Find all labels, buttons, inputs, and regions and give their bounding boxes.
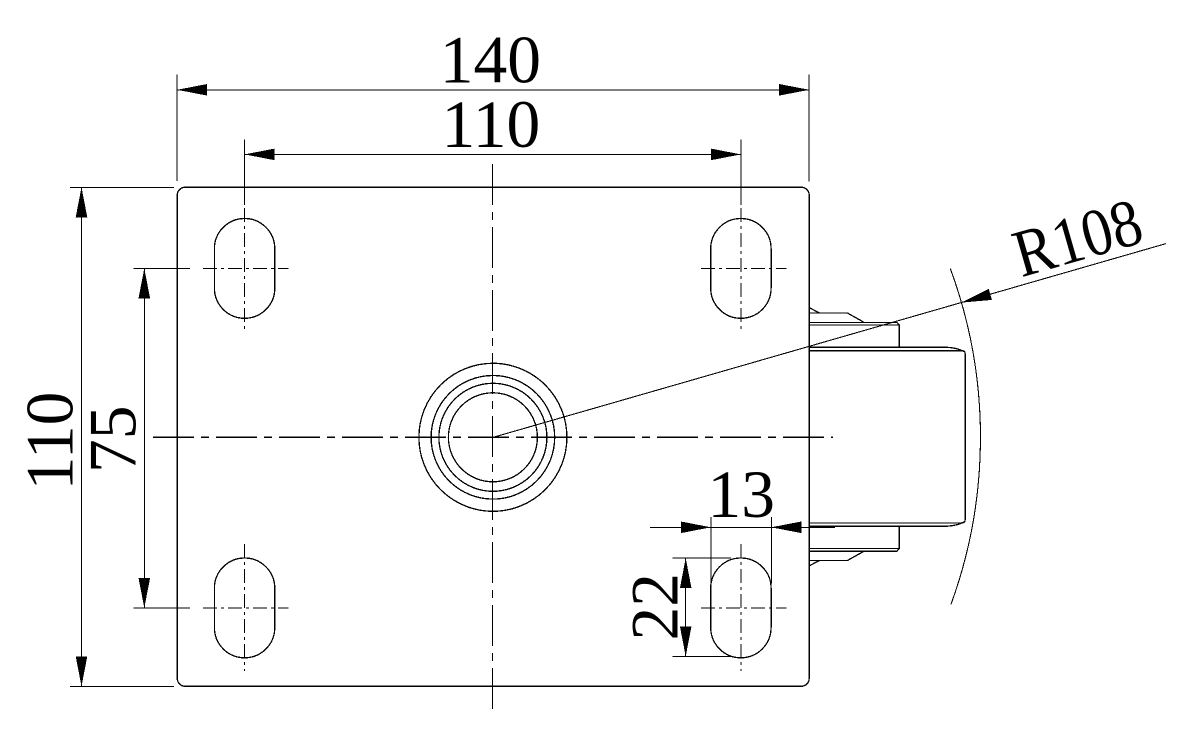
swivel top cap line bbox=[809, 313, 863, 322]
leader R108 bbox=[493, 244, 1166, 438]
svg-text:13: 13 bbox=[707, 457, 775, 532]
dim 22 bottom extension bbox=[672, 655, 731, 657]
dim 13 right extension bbox=[770, 517, 772, 584]
dim 140 right extension bbox=[808, 75, 810, 182]
wheel outline right bbox=[809, 351, 965, 523]
svg-text:110: 110 bbox=[442, 87, 541, 162]
swivel top seam upper bbox=[809, 322, 899, 325]
svg-text:22: 22 bbox=[617, 573, 692, 641]
swivel bottom cap line bbox=[809, 552, 863, 561]
arrow 110 top right bbox=[711, 149, 741, 161]
swivel top chamfer bbox=[809, 308, 819, 313]
slot TR vertical centerline bbox=[740, 208, 742, 332]
dim 110 left bottom extension bbox=[70, 685, 174, 687]
center bore circle 4 bbox=[448, 393, 537, 482]
swivel top block bbox=[809, 325, 899, 347]
arrow 140 left bbox=[177, 84, 207, 96]
slot BL horizontal centerline bbox=[199, 607, 289, 609]
dim 75 bottom extension bbox=[134, 607, 191, 609]
slot BL vertical centerline bbox=[244, 544, 246, 671]
arrow 110 left up bbox=[76, 187, 88, 217]
main vertical centerline bbox=[492, 164, 494, 709]
dimension texts bbox=[13, 22, 1151, 640]
arrow 22 down bbox=[680, 626, 692, 656]
slot hole bottom-right bbox=[711, 558, 771, 658]
swivel bottom block bbox=[809, 526, 899, 548]
main horizontal centerline bbox=[153, 436, 833, 438]
dim 110 top left extension bbox=[244, 140, 246, 205]
arrow 13 right outside bbox=[771, 522, 801, 534]
dimensions bbox=[70, 75, 1166, 687]
center bore circle 2 bbox=[431, 376, 555, 500]
slot hole top-right bbox=[711, 219, 771, 319]
svg-text:75: 75 bbox=[75, 406, 150, 474]
arrow 75 down bbox=[139, 578, 151, 608]
slot BR horizontal centerline bbox=[697, 607, 787, 609]
dim 13 left extension bbox=[710, 517, 712, 584]
dim 110 top right extension bbox=[740, 140, 742, 205]
arrow 110 top left bbox=[245, 149, 275, 161]
dim 13 line bbox=[650, 526, 835, 528]
slot TL vertical centerline bbox=[244, 208, 246, 332]
slot TL horizontal centerline bbox=[199, 267, 289, 269]
arrow R108 leader bbox=[962, 289, 992, 303]
dim 22 top extension bbox=[672, 557, 731, 559]
arrow 140 right bbox=[779, 84, 809, 96]
dim 140 line bbox=[177, 89, 809, 91]
wheel tread shoulder top bbox=[809, 347, 964, 352]
dim 75 top extension bbox=[134, 267, 191, 269]
dim 110 left line bbox=[81, 187, 83, 686]
slot BR vertical centerline bbox=[740, 544, 742, 671]
centerlines bbox=[153, 164, 833, 709]
dim 140 left extension bbox=[176, 75, 178, 182]
arrow 75 up bbox=[139, 268, 151, 298]
center bore circle 1 bbox=[419, 363, 567, 511]
slot hole bottom-left bbox=[214, 558, 274, 658]
arrow 22 up bbox=[680, 558, 692, 588]
arrowheads bbox=[76, 84, 992, 686]
dim 110 left top extension bbox=[70, 186, 174, 188]
center bore circle 3 bbox=[439, 383, 547, 491]
dim 75 line bbox=[143, 268, 145, 608]
swivel bottom chamfer bbox=[809, 561, 819, 566]
slot TR horizontal centerline bbox=[697, 267, 787, 269]
swivel bottom seam lower bbox=[809, 549, 899, 552]
dim 110 top line bbox=[245, 153, 741, 155]
arc R108 bbox=[950, 269, 980, 605]
arrow 13 left outside bbox=[681, 522, 711, 534]
plate outline bbox=[177, 187, 809, 686]
slot hole top-left bbox=[214, 219, 274, 319]
arrow 110 left down bbox=[76, 656, 88, 686]
wheel tread shoulder bottom bbox=[809, 522, 964, 527]
dim 22 line bbox=[685, 558, 687, 656]
